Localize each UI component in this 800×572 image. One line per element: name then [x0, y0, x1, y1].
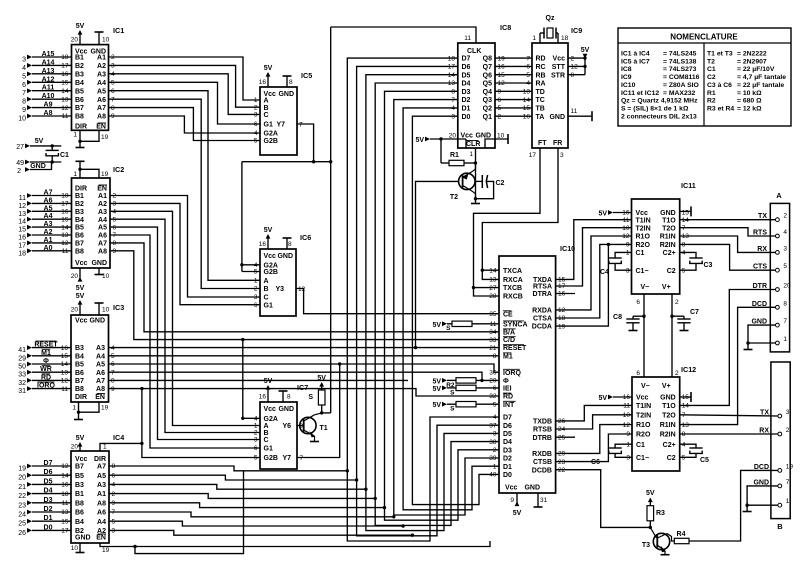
svg-text:D1: D1 [503, 464, 512, 471]
svg-text:8: 8 [571, 72, 575, 79]
ground bar at IC1 GND pin 10 [95, 32, 104, 45]
svg-text:IC1 à IC4: IC1 à IC4 [621, 51, 650, 58]
svg-text:WR: WR [40, 366, 52, 373]
svg-text:5V: 5V [598, 211, 607, 218]
wire A13 input to IC1.B3 (connector pin 5) [22, 68, 71, 81]
svg-text:D4: D4 [462, 81, 471, 88]
svg-text:A6: A6 [96, 370, 105, 377]
svg-text:TC: TC [536, 97, 545, 104]
svg-text:G2B: G2B [264, 455, 278, 462]
svg-text:= Z80A SIO: = Z80A SIO [663, 82, 699, 89]
svg-text:C1: C1 [707, 66, 716, 73]
wire IC1.A4 to IC5.G1 [109, 82, 261, 124]
wire IC10.TXDA to IC11.T1IN [556, 220, 632, 280]
svg-text:C3: C3 [704, 262, 713, 269]
svg-text:RESET: RESET [34, 342, 58, 349]
svg-text:6: 6 [254, 445, 258, 452]
svg-text:14: 14 [61, 224, 69, 231]
svg-text:NOMENCLATURE: NOMENCLATURE [670, 33, 738, 42]
wire IC2.A6 to IC7.G1 [110, 235, 260, 448]
svg-text:24: 24 [558, 426, 566, 433]
svg-text:7: 7 [112, 509, 116, 516]
wire IC8.Q8 to IC9.RD [495, 57, 532, 59]
svg-text:C2+: C2+ [663, 442, 676, 449]
resistor R4 [674, 531, 689, 544]
wire IC2.A3 to IC7.A [110, 211, 260, 425]
IC U1 74LS245 (IC1) [72, 26, 125, 130]
wire CLK top segment to IC8 pin 11 [331, 27, 476, 43]
svg-text:6: 6 [111, 361, 115, 368]
svg-text:A11: A11 [42, 85, 55, 92]
svg-text:C: C [264, 437, 269, 444]
svg-text:8: 8 [682, 242, 686, 249]
wire A7 input to IC2.B1 (connector pin 11) [19, 190, 72, 203]
power 5V above resistor R3 [646, 490, 655, 502]
svg-text:3: 3 [626, 267, 630, 274]
transistor T3 2N2222 [642, 527, 674, 554]
svg-text:C2+: C2+ [663, 250, 676, 257]
svg-text:25: 25 [18, 521, 26, 528]
svg-text:17: 17 [61, 201, 69, 208]
connector A pin 20 DTR [753, 283, 791, 292]
svg-text:5: 5 [498, 105, 502, 112]
svg-text:C7: C7 [690, 309, 699, 316]
wire Y7/CLK vertical to IC8.CLK and T1 node [330, 27, 332, 413]
svg-text:12: 12 [498, 80, 506, 87]
svg-text:5V: 5V [513, 510, 522, 517]
wire A11 input to IC1.B5 (connector pin 7) [22, 85, 71, 98]
svg-text:IC7: IC7 [297, 383, 308, 392]
wire IC7.Y7 up to bus row [297, 362, 341, 457]
wire A1 input to IC2.B7 (connector pin 17) [18, 237, 71, 250]
ground at C8 [629, 330, 638, 332]
svg-text:1: 1 [626, 441, 630, 448]
svg-text:T2: T2 [707, 58, 715, 65]
svg-text:6: 6 [111, 88, 115, 95]
svg-text:TA: TA [536, 114, 545, 121]
svg-text:A4: A4 [97, 80, 106, 87]
wire data bus D3 (IC4 output / IC8.D3 / IC10.D3) [109, 91, 499, 520]
svg-text:Vcc: Vcc [636, 395, 649, 402]
wire D3 input to IC4 (connector pin 23) [18, 497, 71, 510]
svg-text:A3: A3 [96, 345, 105, 352]
svg-text:A4: A4 [98, 217, 107, 224]
svg-text:12: 12 [571, 64, 579, 71]
svg-text:16: 16 [259, 241, 267, 248]
svg-text:3: 3 [22, 57, 26, 64]
svg-text:A13: A13 [42, 68, 55, 75]
svg-text:GND: GND [660, 210, 676, 217]
IC U3 74LS245 (IC3) [71, 303, 124, 402]
wire IC12.T1O to connector A DTR [680, 290, 776, 406]
wire IC11.T1O to connector A TX [680, 219, 776, 221]
svg-text:1: 1 [469, 151, 473, 158]
svg-text:D2: D2 [44, 506, 53, 513]
svg-text:Φ: Φ [43, 358, 49, 365]
svg-text:B4: B4 [75, 519, 84, 526]
svg-text:19: 19 [101, 134, 109, 141]
svg-text:38: 38 [489, 439, 497, 446]
wire IC10.RTSA to IC11.T2IN [556, 228, 632, 286]
svg-text:DIR: DIR [75, 186, 87, 193]
svg-text:R1O: R1O [636, 234, 651, 241]
svg-text:37: 37 [489, 422, 497, 429]
wire RESET input to IC3.B3 (connector pin 41) [18, 341, 71, 354]
svg-text:6: 6 [636, 299, 640, 306]
svg-text:IC9: IC9 [571, 26, 582, 35]
power 5V at IC5 Vcc pin 16 [264, 65, 273, 87]
svg-text:Q6: Q6 [483, 72, 492, 79]
wire IC1.A7 to IC5.G2B [109, 108, 261, 141]
wire RESET net up to transistor T2 base [416, 181, 459, 347]
wire A8 input to IC1.B8 (connector pin 10) [18, 110, 71, 123]
svg-text:4: 4 [254, 130, 258, 137]
svg-text:23: 23 [18, 502, 26, 509]
wire IC2.A1 to IC6.C [110, 196, 260, 298]
svg-text:1: 1 [254, 278, 258, 285]
svg-text:A15: A15 [42, 51, 55, 58]
resistor R1 [441, 139, 476, 166]
svg-text:= COM8116: = COM8116 [663, 74, 700, 81]
svg-text:Q7: Q7 [483, 64, 492, 71]
wire D5 input to IC4 (connector pin 21) [18, 478, 71, 491]
svg-text:G1: G1 [264, 446, 273, 453]
svg-text:A8: A8 [98, 248, 107, 255]
svg-text:50: 50 [18, 364, 26, 371]
svg-text:21: 21 [18, 484, 26, 491]
connector B pin 7 GND [753, 479, 789, 488]
wire IC10.DTRA stub [556, 293, 575, 295]
resistor S [447, 385, 499, 396]
svg-text:13: 13 [61, 232, 69, 239]
wire IC4 DIR pin 1 up to IORQ/G2B net [100, 442, 144, 451]
node junction R3 / DCDB / T3 base [649, 526, 652, 529]
svg-text:20: 20 [18, 475, 26, 482]
wire A10 input to IC1.B6 (connector pin 8) [22, 93, 71, 106]
svg-text:4: 4 [113, 209, 117, 216]
wire connector B RX to IC12.R2IN [680, 433, 778, 435]
svg-text:9: 9 [510, 497, 514, 504]
svg-text:B5: B5 [75, 362, 84, 369]
svg-text:Q5: Q5 [483, 81, 492, 88]
svg-text:RTSA: RTSA [533, 284, 552, 291]
svg-text:6: 6 [493, 385, 497, 392]
svg-text:B3: B3 [75, 71, 84, 78]
resistor S (T1 collector pull-up) [308, 384, 325, 413]
ground bar at IC11 GND pin 15 [680, 206, 691, 216]
svg-text:3: 3 [783, 245, 787, 252]
power 5V pull-up arrow at IC10 row R2 [432, 378, 447, 385]
svg-text:1: 1 [626, 250, 630, 257]
svg-text:5: 5 [682, 267, 686, 274]
svg-text:Vcc: Vcc [75, 318, 88, 325]
svg-text:4: 4 [526, 80, 530, 87]
svg-text:RD: RD [503, 394, 513, 401]
IC U7 74LS138 (IC7) [260, 383, 308, 469]
svg-text:B7: B7 [75, 464, 84, 471]
svg-text:8: 8 [289, 79, 293, 86]
svg-text:11: 11 [571, 108, 578, 115]
power 5V above resistor S at T1 [317, 375, 326, 387]
svg-text:13: 13 [682, 422, 690, 429]
svg-text:TXCA: TXCA [503, 268, 522, 275]
svg-text:5: 5 [111, 79, 115, 86]
svg-text:T2: T2 [450, 194, 458, 201]
svg-text:5: 5 [254, 455, 258, 462]
svg-text:15: 15 [61, 353, 69, 360]
svg-text:CLR: CLR [466, 141, 480, 148]
svg-text:5V: 5V [264, 378, 273, 385]
svg-text:17: 17 [18, 242, 26, 249]
svg-text:13: 13 [18, 211, 26, 218]
svg-text:A8: A8 [97, 114, 106, 121]
svg-text:D3: D3 [462, 89, 471, 96]
svg-text:A3: A3 [97, 482, 106, 489]
svg-text:20: 20 [71, 273, 79, 280]
wire D4 input to IC4 (connector pin 22) [18, 488, 71, 501]
svg-text:RXDB: RXDB [532, 451, 552, 458]
svg-text:19: 19 [102, 547, 110, 554]
svg-text:R2O: R2O [636, 432, 651, 439]
svg-text:8: 8 [111, 378, 115, 385]
svg-text:IC11: IC11 [681, 181, 696, 190]
wire IC2.A2 to IC6.G1 [110, 203, 260, 304]
svg-text:Vcc: Vcc [75, 260, 88, 267]
svg-text:D6: D6 [462, 64, 471, 71]
transistor T2 2N2907 [450, 163, 476, 201]
svg-text:T1: T1 [320, 425, 328, 432]
svg-text:A6: A6 [97, 97, 106, 104]
svg-text:S: S [446, 325, 451, 332]
svg-text:13: 13 [489, 277, 497, 284]
svg-text:IC4: IC4 [113, 433, 124, 442]
svg-text:31: 31 [540, 497, 548, 504]
svg-text:IC2: IC2 [113, 165, 124, 174]
svg-text:10: 10 [623, 412, 631, 419]
svg-text:20: 20 [71, 307, 79, 314]
svg-text:DIR: DIR [75, 394, 87, 401]
svg-text:16: 16 [61, 345, 69, 352]
wire D7 input to IC4 (connector pin 19) [18, 460, 71, 473]
ground bar at IC4 GND pin 10 [76, 543, 85, 553]
svg-text:B: B [777, 522, 783, 531]
wire Y7 net horizontal segment [242, 160, 333, 163]
svg-text:D4: D4 [44, 488, 53, 495]
svg-text:G1: G1 [264, 122, 273, 129]
svg-text:12: 12 [558, 307, 566, 314]
svg-text:D4: D4 [503, 439, 512, 446]
svg-text:19: 19 [786, 463, 794, 470]
wire IC12.R1O to IC10.RXDB [556, 425, 632, 454]
wire IC3.A3 RESET to IC10.RESET [109, 347, 500, 349]
svg-text:7: 7 [299, 122, 303, 129]
svg-text:A3: A3 [98, 209, 107, 216]
svg-text:RD: RD [41, 374, 51, 381]
svg-text:12: 12 [298, 286, 306, 293]
wire IC11.R2O to IC10.CTSA [556, 243, 632, 318]
svg-text:3: 3 [113, 201, 117, 208]
svg-text:15: 15 [498, 72, 506, 79]
svg-text:A4: A4 [97, 519, 106, 526]
ground tie of IC3 DIR and EN pins [74, 402, 99, 420]
svg-text:SYNCA: SYNCA [503, 321, 528, 328]
power 5V pull-up arrow at IC10 row S [432, 386, 447, 393]
svg-text:D0: D0 [503, 472, 512, 479]
wire IC8.CLR pin 1 node [474, 148, 477, 199]
connector B pin 3 TX [760, 409, 790, 418]
svg-text:14: 14 [61, 361, 69, 368]
wire A9 input to IC1.B7 (connector pin 9) [22, 102, 71, 115]
capacitor C8 [613, 314, 644, 331]
svg-text:10: 10 [622, 225, 630, 232]
svg-text:B6: B6 [75, 510, 84, 517]
svg-text:IC3: IC3 [113, 303, 124, 312]
svg-text:A: A [264, 278, 269, 285]
svg-text:5V: 5V [432, 402, 441, 409]
wire data bus D7 (IC4 output / IC8.D7 / IC10.D7) [109, 58, 499, 541]
svg-text:V+: V+ [662, 383, 671, 390]
svg-text:GND: GND [278, 91, 294, 98]
svg-text:4: 4 [111, 71, 115, 78]
svg-text:8: 8 [113, 240, 117, 247]
svg-text:DCDA: DCDA [532, 324, 552, 331]
svg-text:B2: B2 [75, 63, 84, 70]
svg-text:11: 11 [19, 195, 26, 202]
svg-text:14: 14 [61, 472, 69, 479]
svg-text:R4: R4 [677, 531, 686, 538]
svg-text:V+: V+ [662, 284, 671, 291]
svg-text:15: 15 [61, 79, 69, 86]
svg-text:G1: G1 [264, 302, 273, 309]
svg-text:B/A: B/A [503, 329, 515, 336]
wire M1 input to IC3.B4 (connector pin 29) [18, 349, 71, 362]
node junction T1 collector / S pull-up [320, 411, 331, 414]
svg-text:C4: C4 [600, 269, 609, 276]
svg-text:CLK: CLK [467, 48, 481, 55]
svg-text:C5: C5 [700, 457, 709, 464]
svg-text:A6: A6 [98, 233, 107, 240]
transistor T1 2N2222 [297, 413, 328, 442]
svg-text:14: 14 [489, 267, 497, 274]
svg-text:29: 29 [558, 451, 566, 458]
svg-text:V−: V− [641, 383, 650, 390]
svg-text:16: 16 [623, 394, 631, 401]
svg-text:T2IN: T2IN [636, 412, 651, 419]
svg-text:IC5 à IC7: IC5 à IC7 [621, 58, 650, 65]
resistor R3 [647, 500, 665, 528]
svg-text:3: 3 [560, 152, 564, 159]
svg-text:5V: 5V [317, 375, 326, 382]
svg-text:S: S [450, 389, 455, 396]
power 5V at IC2 Vcc pin 20 [76, 268, 85, 292]
wire IC2.A5 to IC7.C [110, 227, 260, 439]
ground bar at IC10 GND pin 31 [534, 493, 543, 507]
svg-text:= MAX232: = MAX232 [663, 90, 696, 97]
svg-text:A7: A7 [97, 105, 106, 112]
svg-text:IC12: IC12 [681, 365, 696, 374]
svg-text:13: 13 [682, 233, 690, 240]
wire IC12.T2O to connector B TX [680, 415, 778, 416]
power 5V pull-up arrow at IC10 row S [432, 321, 447, 328]
wire IC3.A8 RD to IC10.RD with jog [109, 389, 500, 396]
svg-text:IC8: IC8 [500, 23, 511, 32]
svg-text:Vcc: Vcc [553, 56, 566, 63]
ground bar at IC2 GND pin 10 [95, 268, 104, 275]
svg-text:16: 16 [61, 71, 69, 78]
svg-text:D1: D1 [462, 106, 471, 113]
svg-text:9: 9 [626, 431, 630, 438]
svg-text:G2A: G2A [264, 416, 278, 423]
wire IC8.Q2 to IC9.TB [495, 107, 532, 109]
power 5V at IC1 Vcc pin 20 [76, 23, 85, 45]
svg-text:8: 8 [493, 353, 497, 360]
connector B pin 2 RX [759, 427, 790, 436]
svg-text:A5: A5 [97, 88, 106, 95]
svg-text:32: 32 [489, 393, 497, 400]
svg-text:1: 1 [73, 171, 77, 178]
svg-text:B7: B7 [75, 378, 84, 385]
svg-text:B6: B6 [75, 97, 84, 104]
svg-text:17: 17 [448, 64, 456, 71]
wire RD input to IC3.B7 (connector pin 32) [18, 374, 71, 387]
svg-text:B1: B1 [75, 193, 84, 200]
svg-text:7: 7 [22, 90, 26, 97]
svg-text:D0: D0 [462, 114, 471, 121]
wire A4 input to IC2.B4 (connector pin 14) [18, 213, 71, 226]
svg-text:5V: 5V [598, 395, 607, 402]
wire A14 input to IC1.B2 (connector pin 4) [22, 59, 71, 72]
svg-text:CTSA: CTSA [533, 316, 552, 323]
svg-text:EN: EN [95, 394, 105, 401]
wire data bus D4 (IC4 output / IC8.D4 / IC10.D4) [109, 83, 499, 525]
svg-text:8: 8 [287, 394, 291, 401]
connector B (DIL) box [771, 362, 790, 531]
svg-text:DIR: DIR [94, 456, 106, 463]
wire IC10.DTRB stub [556, 436, 575, 438]
wire IC12.R2O to IC10.CTSB [556, 434, 632, 462]
svg-text:A7: A7 [97, 464, 106, 471]
svg-text:B2: B2 [75, 201, 84, 208]
resistor S [447, 402, 499, 413]
svg-text:T1O: T1O [662, 403, 676, 410]
wire data bus D1 (IC4 output / IC8.D1 / IC10.D1) [109, 108, 499, 528]
svg-text:T3: T3 [642, 542, 650, 549]
svg-text:18: 18 [61, 491, 69, 498]
svg-text:5V: 5V [432, 378, 441, 385]
wire IC3.A7 PHI stub [109, 379, 409, 381]
wire IC3.A4 M1 to IC10.M1 [109, 355, 500, 357]
svg-text:3: 3 [111, 63, 115, 70]
svg-text:IC11 et IC12: IC11 et IC12 [621, 90, 659, 97]
svg-text:R1IN: R1IN [660, 234, 676, 241]
svg-text:20: 20 [783, 283, 791, 290]
svg-text:49: 49 [16, 160, 24, 167]
svg-text:2: 2 [783, 213, 787, 220]
svg-text:R1: R1 [707, 90, 716, 97]
svg-text:B3: B3 [75, 345, 84, 352]
svg-text:DCDB: DCDB [532, 467, 552, 474]
svg-text:7: 7 [111, 96, 115, 103]
svg-text:C6: C6 [591, 459, 600, 466]
svg-text:C: C [264, 295, 269, 302]
svg-text:5: 5 [111, 353, 115, 360]
svg-text:2: 2 [493, 447, 497, 454]
svg-text:Qz: Qz [546, 15, 555, 22]
svg-text:B5: B5 [75, 473, 84, 480]
svg-text:G2A: G2A [264, 131, 278, 138]
wire A2 input to IC2.B6 (connector pin 16) [18, 229, 71, 242]
svg-text:16: 16 [523, 113, 531, 120]
